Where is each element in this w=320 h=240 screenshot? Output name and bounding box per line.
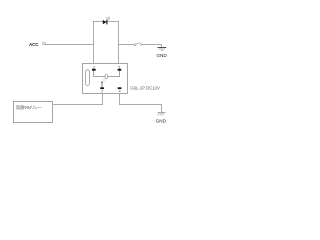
terminal ACC	[43, 43, 45, 45]
svg-text:ACC: ACC	[29, 42, 39, 47]
svg-text:GND: GND	[156, 119, 167, 124]
wire down to GND1	[161, 45, 163, 48]
wire top rail	[93, 21, 119, 23]
internal coil wiring	[94, 71, 120, 79]
pad pin 3	[92, 69, 96, 71]
svg-text:2: 2	[101, 90, 103, 94]
ground GND1	[158, 48, 167, 51]
wire pin2 to JR box	[53, 94, 103, 105]
wire pin4 to GND2	[120, 94, 162, 113]
armature contact	[101, 80, 105, 88]
diode D1	[103, 20, 107, 25]
JR unit box	[14, 102, 53, 123]
svg-text:5: 5	[119, 65, 121, 69]
pad pin 4	[118, 87, 122, 89]
svg-text:G6L-1P DC12V: G6L-1P DC12V	[130, 85, 160, 90]
svg-text:GND: GND	[156, 53, 167, 58]
wire switch left	[119, 44, 135, 46]
wire left vertical (ACC to coil pin 3)	[93, 22, 95, 64]
ground GND2	[158, 113, 166, 116]
pad pin 5	[118, 69, 122, 71]
wire right vertical (diode to pin 5)	[118, 22, 120, 64]
relay box K1	[83, 64, 128, 94]
pad pin 2	[100, 87, 104, 89]
switch S1	[134, 43, 142, 46]
coil body	[85, 70, 89, 86]
svg-text:3: 3	[93, 65, 95, 69]
svg-text:4: 4	[119, 90, 121, 94]
wire ACC	[45, 44, 93, 46]
wire switch right	[142, 44, 162, 46]
svg-text:D1: D1	[106, 17, 110, 21]
svg-text:高速RAMリレー: 高速RAMリレー	[16, 104, 42, 111]
